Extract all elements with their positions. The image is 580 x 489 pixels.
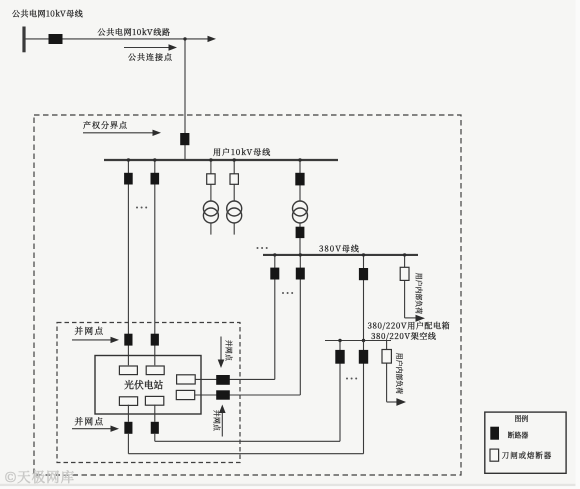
svg-text:图例: 图例: [515, 413, 529, 423]
svg-text:公共连接点: 公共连接点: [127, 52, 173, 63]
svg-text:公共电网10kV母线: 公共电网10kV母线: [11, 9, 84, 20]
svg-text:380V母线: 380V母线: [319, 243, 360, 254]
svg-text:并网点: 并网点: [75, 415, 105, 427]
svg-text:并网点: 并网点: [75, 325, 105, 337]
svg-text:光伏电站: 光伏电站: [124, 377, 163, 391]
svg-text:用户内部负荷: 用户内部负荷: [415, 273, 425, 314]
svg-text:断路器: 断路器: [508, 429, 529, 439]
svg-text:380/220V用户配电箱: 380/220V用户配电箱: [368, 321, 451, 332]
svg-text:用户10kV母线: 用户10kV母线: [213, 147, 271, 158]
svg-text:并网点: 并网点: [213, 410, 223, 431]
svg-text:刀闸或熔断器: 刀闸或熔断器: [502, 450, 552, 461]
svg-text:用户内部负荷: 用户内部负荷: [395, 353, 405, 394]
svg-text:公共电网10kV线路: 公共电网10kV线路: [97, 27, 171, 38]
svg-text:并网点: 并网点: [225, 340, 235, 361]
svg-text:©天极网库: ©天极网库: [5, 466, 75, 486]
svg-text:产权分界点: 产权分界点: [83, 120, 128, 131]
